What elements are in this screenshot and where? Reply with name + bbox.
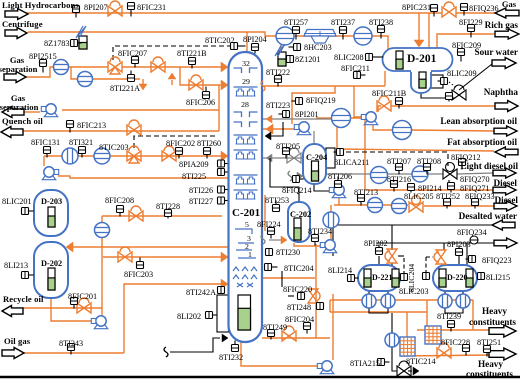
svg-text:8FI224: 8FI224: [257, 220, 281, 229]
svg-text:8TI225: 8TI225: [182, 172, 206, 181]
svg-text:8TI206: 8TI206: [328, 172, 352, 181]
svg-text:Rich gas: Rich gas: [485, 20, 519, 30]
svg-text:8TI234: 8TI234: [308, 227, 332, 236]
svg-text:8TI252: 8TI252: [436, 192, 460, 201]
svg-text:8TI248: 8TI248: [287, 303, 311, 312]
svg-text:1: 1: [248, 250, 252, 259]
svg-text:8Z1783: 8Z1783: [44, 39, 69, 48]
svg-text:8FIC204: 8FIC204: [285, 315, 314, 324]
svg-text:8FIC206: 8FIC206: [186, 98, 215, 107]
svg-text:8TI253: 8TI253: [265, 196, 289, 205]
svg-text:Naphtha: Naphtha: [484, 87, 519, 97]
svg-text:C-202: C-202: [290, 210, 311, 219]
svg-text:8PI202: 8PI202: [364, 239, 388, 248]
svg-text:8FIC231: 8FIC231: [137, 3, 166, 12]
svg-text:8LIC201: 8LIC201: [2, 197, 32, 206]
svg-text:8PI204: 8PI204: [243, 35, 267, 44]
svg-text:Recycle oil: Recycle oil: [3, 294, 44, 304]
svg-text:8TI243: 8TI243: [59, 339, 83, 348]
svg-text:8TI222: 8TI222: [266, 68, 290, 77]
svg-text:8TI237: 8TI237: [331, 18, 355, 27]
svg-text:Fat absorption oil: Fat absorption oil: [447, 137, 517, 147]
svg-text:8LI213: 8LI213: [4, 261, 28, 270]
svg-text:8PI207: 8PI207: [84, 3, 108, 12]
svg-text:8FIC131: 8FIC131: [31, 138, 60, 147]
svg-text:8LIC208: 8LIC208: [334, 53, 364, 62]
svg-text:8FIQ214: 8FIQ214: [282, 186, 312, 195]
svg-text:8PIA209: 8PIA209: [179, 160, 209, 169]
svg-text:8FIQ270: 8FIQ270: [460, 175, 490, 184]
svg-text:8TIA215: 8TIA215: [350, 359, 380, 368]
svg-text:8TI228: 8TI228: [156, 202, 180, 211]
svg-text:constituents: constituents: [469, 317, 516, 327]
svg-text:8TI223: 8TI223: [266, 101, 290, 110]
svg-text:8TI238: 8TI238: [369, 18, 393, 27]
svg-text:separation: separation: [0, 102, 39, 112]
svg-text:8HC203: 8HC203: [304, 43, 332, 52]
svg-text:8TI221B: 8TI221B: [177, 49, 207, 58]
svg-text:Heavy: Heavy: [478, 359, 503, 369]
svg-text:Light Hydrocarbons: Light Hydrocarbons: [2, 0, 79, 10]
svg-text:Lean absorption oil: Lean absorption oil: [440, 116, 517, 126]
svg-text:8TIC202: 8TIC202: [205, 36, 235, 45]
svg-text:8TIC203: 8TIC203: [99, 143, 129, 152]
svg-text:Quench oil: Quench oil: [2, 116, 43, 126]
svg-text:8TI208: 8TI208: [417, 157, 441, 166]
svg-text:8PI201: 8PI201: [295, 110, 319, 119]
svg-text:8PI2515: 8PI2515: [29, 52, 57, 61]
svg-text:Diesel: Diesel: [495, 195, 519, 205]
svg-text:8TIC204: 8TIC204: [284, 264, 314, 273]
svg-text:8FIQ223: 8FIQ223: [482, 256, 512, 265]
svg-text:8FIC207: 8FIC207: [118, 49, 147, 58]
svg-text:8TI257: 8TI257: [284, 18, 308, 27]
svg-text:D-202: D-202: [41, 259, 62, 268]
svg-text:8FIQ219: 8FIQ219: [306, 96, 336, 105]
svg-text:8FIC208: 8FIC208: [105, 196, 134, 205]
svg-text:D-203: D-203: [41, 197, 62, 206]
svg-text:8LI214: 8LI214: [328, 266, 352, 275]
svg-text:8FIC203: 8FIC203: [124, 270, 153, 279]
svg-text:8TI221A: 8TI221A: [110, 84, 140, 93]
svg-text:Oil gas: Oil gas: [4, 336, 31, 346]
svg-text:D-220: D-220: [447, 273, 467, 282]
svg-text:8FIC209: 8FIC209: [452, 41, 481, 50]
svg-text:8PIC231: 8PIC231: [402, 3, 431, 12]
svg-text:C-201: C-201: [232, 207, 260, 219]
svg-text:8FIC220: 8FIC220: [283, 285, 312, 294]
svg-text:D-221: D-221: [372, 273, 392, 282]
svg-text:8FI229: 8FI229: [459, 18, 483, 27]
svg-text:8FIC211B: 8FIC211B: [372, 89, 407, 98]
svg-text:8FIQ236: 8FIQ236: [469, 4, 499, 13]
svg-text:Light diesel oil: Light diesel oil: [460, 161, 518, 171]
svg-text:8TI216: 8TI216: [387, 175, 411, 184]
svg-text:Gas: Gas: [502, 0, 517, 9]
svg-text:8FIQ233: 8FIQ233: [465, 192, 495, 201]
svg-text:8FIC201: 8FIC201: [68, 292, 97, 301]
svg-text:8TI239: 8TI239: [437, 312, 461, 321]
svg-text:separation: separation: [0, 64, 38, 74]
svg-text:Diesel: Diesel: [494, 178, 518, 188]
svg-text:8LIC205: 8LIC205: [404, 192, 434, 201]
svg-text:8TI226: 8TI226: [189, 186, 213, 195]
svg-text:8TI321: 8TI321: [69, 138, 93, 147]
svg-text:Desalted water: Desalted water: [459, 211, 517, 221]
svg-text:8TIC214: 8TIC214: [406, 357, 436, 366]
svg-text:8TI251: 8TI251: [477, 338, 501, 347]
svg-text:8TI207: 8TI207: [387, 157, 411, 166]
svg-text:C-204: C-204: [306, 153, 327, 162]
svg-text:8TI205: 8TI205: [276, 142, 300, 151]
svg-text:8FIC211: 8FIC211: [341, 64, 370, 73]
svg-text:8LIC209: 8LIC209: [447, 69, 477, 78]
svg-text:8TI230: 8TI230: [276, 248, 300, 257]
svg-text:D-201: D-201: [407, 53, 437, 65]
svg-text:8TI249: 8TI249: [263, 323, 287, 332]
svg-text:Centrifuge: Centrifuge: [2, 19, 43, 29]
svg-text:5: 5: [245, 220, 249, 229]
svg-text:28: 28: [241, 100, 249, 109]
svg-text:8FIC202: 8FIC202: [166, 139, 195, 148]
svg-text:8LI202: 8LI202: [177, 312, 201, 321]
svg-text:8FIC228: 8FIC228: [441, 338, 470, 347]
svg-text:8TI260: 8TI260: [197, 139, 221, 148]
svg-text:8PI203: 8PI203: [447, 240, 471, 249]
svg-text:32: 32: [242, 59, 250, 68]
svg-text:8FIQ212: 8FIQ212: [451, 153, 481, 162]
svg-text:8TI213: 8TI213: [354, 188, 378, 197]
svg-text:8TI227: 8TI227: [189, 197, 213, 206]
svg-text:Heavy: Heavy: [482, 306, 507, 316]
svg-text:8LICA211: 8LICA211: [334, 158, 369, 167]
svg-text:8TI232: 8TI232: [219, 353, 243, 362]
svg-text:29: 29: [242, 77, 250, 86]
svg-text:8TI242A: 8TI242A: [186, 288, 216, 297]
svg-text:8Z1201: 8Z1201: [295, 55, 320, 64]
svg-text:8FIC213: 8FIC213: [77, 121, 106, 130]
svg-text:8FIQ234: 8FIQ234: [457, 228, 487, 237]
svg-text:8LIC204: 8LIC204: [407, 264, 416, 292]
svg-text:8LI215: 8LI215: [486, 273, 510, 282]
